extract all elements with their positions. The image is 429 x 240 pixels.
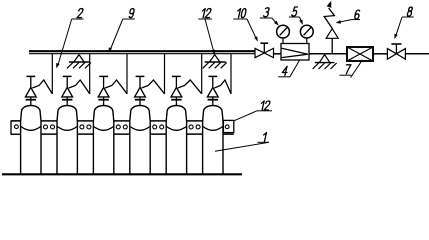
label 12 (header) [201,9,212,18]
leader for label 2 [56,19,83,68]
drop pipe 2 (wire) [89,54,91,94]
leader for label 5 [289,17,303,24]
flexible hose 2 (zigzag) [69,80,90,94]
drop pipe 5 (wire) [201,54,203,94]
leader for label 12 (clamp) [234,111,272,121]
wire valve10 to regulator [274,53,282,55]
leader for label 8 [395,17,414,39]
outlet valve 8 (bowtie with handle) [387,44,405,59]
base line (floor) [2,173,242,175]
manifold header pipe 9 (double line) [29,51,255,54]
shutoff valve 10 (bowtie with handle) [255,43,274,57]
clamp right end plate [223,120,233,132]
gauge 3 (manometer) [277,25,290,43]
drop pipe 6 (wire) [230,54,232,94]
flame arrestor 7 (box with X) [347,47,373,61]
drop pipe 4 (wire) [164,54,166,94]
leader for label 10 [233,19,257,41]
cylinder 4 (body) [130,76,150,174]
flexible hose 3 (zigzag) [105,80,127,94]
label 7 [344,65,351,74]
cylinder 5 (body) [166,76,186,174]
label 5 [292,7,298,16]
leader for label 1 [215,142,269,151]
label 4 [282,66,289,75]
cylinder 2 (body) [57,76,77,174]
flexible hose 4 (zigzag) [142,80,165,94]
flexible hose 1 (zigzag) [32,80,52,94]
leader for label 6 [336,20,360,24]
label 3 [263,8,269,17]
pipe support (right, under header) [203,55,227,69]
drop pipe 1 (wire) [51,54,53,94]
flexible hose 6 (zigzag) [214,80,231,94]
flexible hose 5 (zigzag) [178,80,202,94]
leader for label 3 [260,18,279,25]
clamp bar 12 (collector frame rails) [11,121,234,134]
label 1 [262,133,266,142]
leader for label 9 [109,19,135,52]
leader for label 4 [278,60,299,76]
label 2 [77,9,83,18]
cylinder 6 (body) [203,76,223,174]
outlet wire to edge [405,53,429,55]
label 6 [354,10,360,19]
leader for label 12 (header) [198,19,215,54]
wire arrestor to valve 8 [373,53,387,55]
clamp left end plate [11,121,21,134]
leader for label 7 [339,60,362,78]
pipe support (left, under header) [67,55,91,69]
safety valve 6 (triangle with discharge zigzag arrow) [324,2,338,54]
clamp bolts [15,125,230,129]
drop pipe 3 (wire) [126,54,128,94]
wire regulator to arrestor [309,53,347,55]
label 12 (clamp) [260,101,271,110]
pressure regulator 4 (box with triangle) [281,44,309,61]
cylinder 1 (body) [21,76,41,174]
label 10 [236,9,246,18]
pipe support (under outlet line) [313,55,337,69]
gauge 5 (manometer) [300,25,313,43]
cylinder 3 (body) [93,76,113,174]
label 8 [407,7,413,16]
label 9 [129,9,135,18]
